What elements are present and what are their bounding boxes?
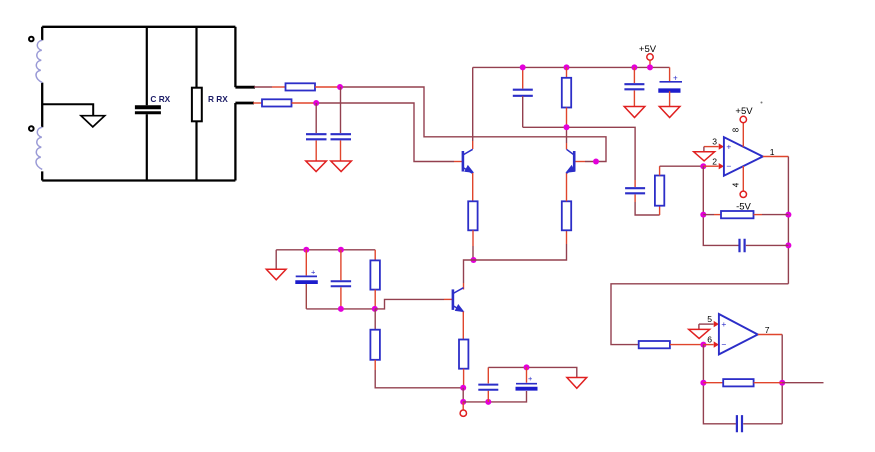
- resistor R7 (feedback): [721, 211, 754, 218]
- SECTION: bias: [266, 247, 586, 417]
- node junction upper: [337, 84, 343, 90]
- terminal +5V: [647, 54, 653, 60]
- svg-text:2: 2: [712, 156, 717, 166]
- svg-text:1: 1: [770, 147, 775, 157]
- wire pin1 output: [763, 156, 789, 158]
- wire R8 to pin6: [670, 344, 704, 346]
- ground (bias rail): [275, 250, 277, 269]
- capacitor C8 (feedback): [737, 415, 742, 432]
- wire C11 top lead: [487, 367, 489, 383]
- ground (cap Cb): [306, 161, 327, 172]
- wire output down: [781, 335, 783, 424]
- wire R10 bottom lead: [374, 290, 376, 309]
- SECTION: diff pair: [463, 64, 670, 289]
- SECTION: opamp2: [639, 314, 824, 432]
- wire C4 bottom lead: [633, 91, 635, 107]
- wire R5 top lead: [566, 67, 568, 77]
- wire Q1 emitter lead: [472, 173, 474, 201]
- wire C12 top lead: [526, 367, 528, 382]
- wire Q2 collector riser: [566, 143, 568, 149]
- wire bias bottom rail: [306, 308, 375, 310]
- resistor R6: [655, 176, 664, 206]
- node rail C9: [303, 247, 309, 253]
- wire lower bus to series cap: [523, 127, 635, 180]
- node rail C4: [631, 64, 637, 70]
- wire C5 bottom lead: [669, 91, 671, 106]
- transistor Q3: [453, 288, 464, 312]
- wire C10 top lead: [340, 250, 342, 280]
- wire C RX top lead: [146, 27, 148, 106]
- capacitor Cb: [306, 134, 327, 139]
- svg-text:+: +: [528, 374, 533, 383]
- wire right side lower segment: [234, 103, 236, 181]
- wire Q2 emitter lead: [566, 173, 568, 201]
- terminal dot upper winding: [29, 37, 34, 42]
- wire cap C3 top lead: [522, 67, 524, 88]
- svg-text:6: 6: [707, 334, 712, 344]
- wire Q1 collector riser: [472, 67, 474, 141]
- capacitor Ca: [331, 134, 352, 139]
- wire pin3 stub: [704, 146, 719, 148]
- svg-text:+5V: +5V: [735, 106, 753, 117]
- wire pin2 down to feedback: [703, 166, 738, 245]
- wire C11 bottom lead: [487, 391, 489, 402]
- capacitor C RX: [135, 105, 161, 109]
- wire +5V rail: [473, 66, 670, 68]
- wire output stub upper: [235, 86, 255, 89]
- pin 4 lead: [742, 166, 744, 191]
- capacitor C11: [478, 385, 498, 390]
- wire R7 right lead: [754, 214, 763, 216]
- node junction lower: [313, 100, 319, 106]
- svg-text:8: 8: [732, 127, 741, 132]
- pin 5 arrow: [714, 321, 719, 327]
- capacitor C7 (feedback): [740, 239, 745, 253]
- node divider junction: [372, 306, 378, 312]
- svg-text:+5V: +5V: [639, 44, 657, 55]
- wire cap Cb bottom lead: [315, 141, 317, 162]
- wire cap Ca bottom lead: [340, 141, 342, 162]
- svg-text:7: 7: [765, 325, 770, 335]
- wire left vertical segments: [41, 27, 43, 181]
- wire R10 top lead: [374, 250, 376, 261]
- wire right side upper segment: [234, 27, 236, 87]
- wire R9 right lead: [754, 382, 783, 384]
- node bus R5 junction: [564, 124, 570, 130]
- resistor R9 (feedback): [723, 379, 753, 386]
- capacitor C6 (series coupling): [625, 188, 645, 193]
- node bottom C10: [338, 306, 344, 312]
- capacitor C12 (polarized): [516, 383, 537, 385]
- node top C12: [524, 364, 530, 370]
- wire pin5 stub: [699, 323, 714, 325]
- wire C9 top lead: [305, 250, 307, 276]
- svg-text:+: +: [673, 74, 678, 83]
- capacitor C9 (polarized): [296, 275, 317, 277]
- ground (pin 5): [698, 324, 700, 329]
- wire C10 bottom lead: [340, 287, 342, 309]
- wire R7 left lead: [703, 214, 714, 216]
- wire down to port: [462, 388, 464, 402]
- ground (C4): [624, 107, 645, 118]
- wire pin6 down to feedback: [703, 345, 736, 424]
- node pin6 junction: [700, 342, 706, 348]
- wire R RX top lead: [195, 27, 197, 88]
- terminal dot lower winding: [29, 126, 34, 131]
- wire R11 bottom lead: [374, 360, 376, 370]
- node rail R5: [564, 64, 570, 70]
- resistor R1 (upper input): [286, 83, 316, 90]
- wire bottom of input box: [42, 179, 235, 181]
- svg-text:R RX: R RX: [208, 94, 228, 104]
- wire C RX bottom lead: [146, 114, 148, 180]
- op-amp U2: [719, 314, 758, 354]
- wire stub2 to R2: [253, 102, 262, 104]
- wire cap Ca top lead: [340, 87, 342, 133]
- wire C8 right lead: [743, 423, 782, 425]
- wire R RX bottom lead: [195, 121, 197, 180]
- resistor R4 (Q2 emitter): [562, 201, 571, 230]
- ground (pin 3): [703, 147, 705, 152]
- wire divider to Q3 base: [375, 299, 444, 309]
- inductor L1 (upper winding): [36, 40, 42, 82]
- node port junction: [460, 399, 466, 405]
- capacitor C5 (polarized): [660, 81, 683, 83]
- capacitor C10: [331, 281, 351, 286]
- wire node to corner and to Q1 base: [316, 103, 454, 162]
- node output R7: [785, 212, 791, 218]
- svg-text:−: −: [721, 340, 726, 350]
- node bus C11: [485, 399, 491, 405]
- SECTION: opamp1: [611, 106, 791, 345]
- node Q2 base dot: [593, 159, 599, 165]
- terminal +5V (pin 8): [740, 116, 746, 122]
- svg-text:3: 3: [712, 137, 717, 147]
- resistor R2 (lower input): [262, 99, 292, 106]
- wire R2 to node: [292, 102, 317, 104]
- terminal -5V (pin 4): [740, 191, 746, 197]
- wire C5 top lead: [669, 67, 671, 81]
- wire pin2 stub: [703, 165, 718, 167]
- wire common node right to R4: [474, 244, 567, 260]
- resistor R3 (Q1 emitter): [468, 201, 477, 230]
- wire C4 top lead: [633, 67, 635, 83]
- wire output stub right: [782, 382, 823, 384]
- resistor R10: [370, 260, 380, 289]
- node rail C3: [520, 64, 526, 70]
- pin 8 lead: [742, 123, 744, 147]
- inductor L2 (lower winding): [36, 127, 42, 169]
- node output R9: [779, 380, 785, 386]
- node rail C10: [338, 247, 344, 253]
- transistor Q1: [463, 149, 473, 173]
- svg-text:+: +: [726, 142, 731, 152]
- svg-text:4: 4: [732, 182, 741, 187]
- wire C9 bottom lead: [305, 284, 307, 309]
- wire stub1 to R1: [254, 86, 272, 88]
- wire top of input box: [42, 26, 235, 28]
- wire R12 bottom lead: [463, 369, 465, 388]
- resistor R11: [370, 330, 380, 360]
- node emitter output: [460, 385, 466, 391]
- wire Q3 emitter lead: [462, 312, 464, 340]
- wire R5 bottom lead: [566, 108, 568, 128]
- wire output down: [787, 157, 789, 284]
- wire node to corner and across to Q2 base: [340, 87, 606, 162]
- stray mark: [761, 102, 763, 104]
- node common emitter junction: [471, 257, 477, 263]
- wire top cap bus to ground: [488, 367, 577, 377]
- wire R6 top to pin2: [659, 166, 661, 175]
- SECTION: input RC: [253, 83, 606, 171]
- wire center tap: [42, 104, 93, 115]
- svg-text:C RX: C RX: [150, 94, 170, 104]
- resistor R8 (input): [639, 341, 670, 348]
- wire pin7 output: [758, 334, 782, 336]
- transistor Q2 (mirrored): [566, 149, 574, 173]
- pin 2 arrow: [719, 163, 724, 169]
- wire R11 top lead: [374, 309, 376, 330]
- node pin2 junction: [700, 163, 706, 169]
- ground (cap Ca): [331, 161, 352, 172]
- ground (center tap, black): [81, 116, 105, 127]
- resistor R RX: [192, 88, 202, 122]
- ground (output caps): [567, 378, 587, 389]
- node output C7: [785, 242, 791, 248]
- wire R1 to node: [315, 86, 340, 88]
- wire output stub lower: [235, 102, 254, 105]
- wire bias top rail: [276, 249, 375, 251]
- wire common node left to Q3 collector: [464, 260, 474, 283]
- node pin2 R7: [700, 212, 706, 218]
- wire C7 right lead: [746, 244, 789, 246]
- wire long run to opamp2: [611, 284, 788, 345]
- wire R3 bottom to common node: [472, 230, 474, 246]
- svg-text:+: +: [311, 268, 316, 277]
- capacitor C4: [624, 84, 644, 89]
- resistor R12 (Q3 emitter): [459, 340, 468, 369]
- wire R9 left lead: [703, 382, 723, 384]
- SECTION: supply: [624, 44, 762, 118]
- svg-text:−: −: [726, 161, 731, 171]
- op-amp U1: [724, 137, 763, 176]
- pin 3 arrow: [719, 143, 724, 149]
- terminal output port: [462, 402, 464, 410]
- wire cap Cb top lead: [315, 103, 317, 133]
- wire bottom cap bus: [463, 391, 526, 402]
- svg-text:+: +: [721, 319, 726, 329]
- ground (C5): [659, 107, 680, 118]
- wire C3 bottom lead to bus: [522, 96, 524, 127]
- wire pin6 stub: [703, 344, 713, 346]
- capacitor C3: [513, 90, 533, 96]
- wire +5V lead: [649, 60, 651, 67]
- resistor R5: [562, 78, 571, 108]
- SECTION: transformer block: [29, 27, 255, 181]
- pin 6 arrow: [714, 341, 719, 347]
- node pin6 R9: [700, 380, 706, 386]
- node rail supply: [647, 64, 653, 70]
- wire C6 bottom to R6 bottom: [634, 195, 636, 203]
- svg-text:5: 5: [707, 314, 712, 324]
